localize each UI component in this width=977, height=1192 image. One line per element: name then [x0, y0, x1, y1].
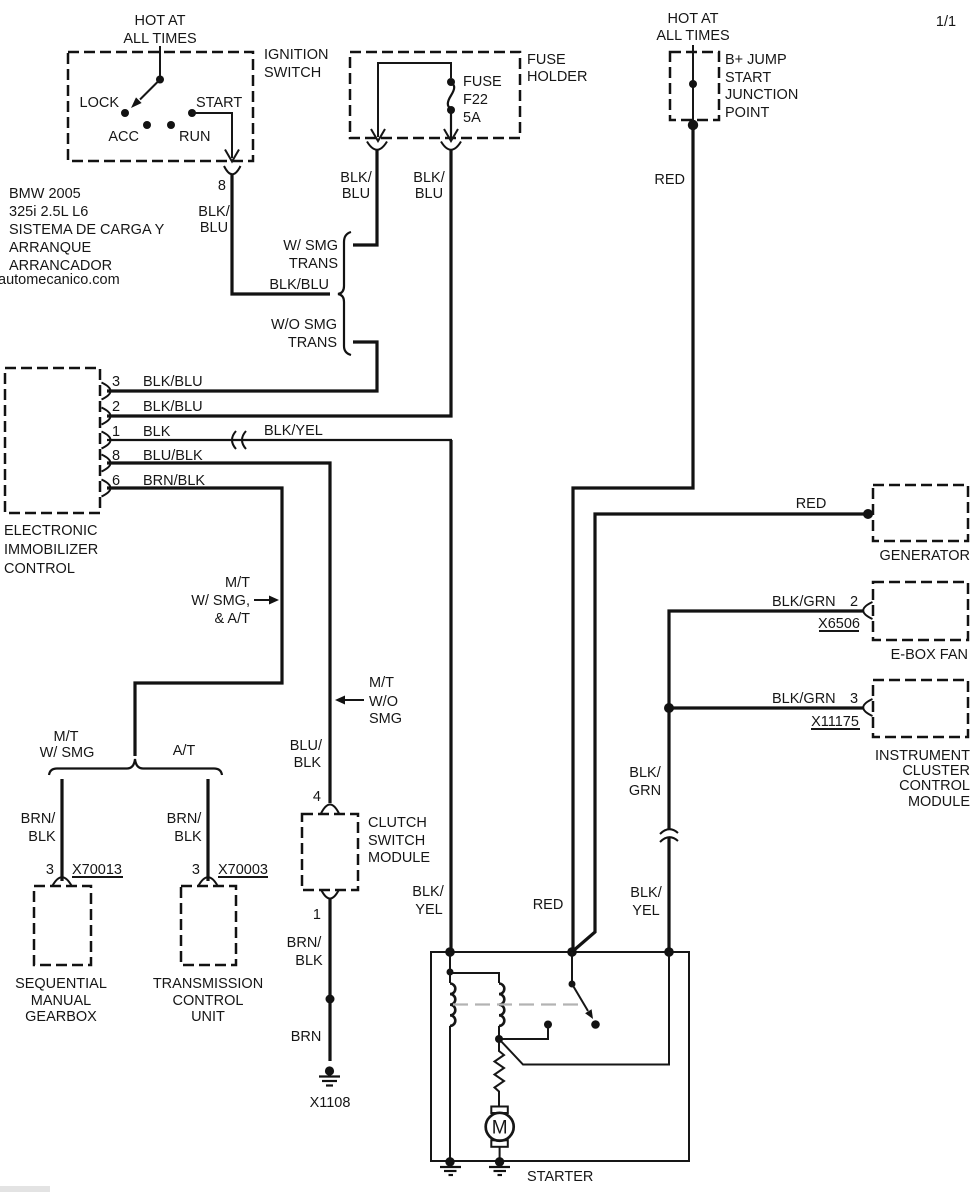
svg-text:3: 3 [112, 374, 120, 390]
svg-text:W/O: W/O [369, 694, 398, 710]
svg-text:IGNITION: IGNITION [264, 47, 328, 63]
splice dot [326, 995, 335, 1004]
svg-text:BLK: BLK [294, 755, 322, 771]
svg-text:W/ SMG,: W/ SMG, [191, 593, 250, 609]
svg-text:BRN/: BRN/ [21, 811, 57, 827]
wire feed into ignition switch [159, 46, 161, 79]
svg-text:& A/T: & A/T [215, 611, 251, 627]
wire BRN/BLK from clutch to ground [328, 899, 331, 1061]
svg-text:TRANS: TRANS [289, 256, 338, 272]
wire RED generator branch [573, 514, 868, 951]
wire START to ignition output with arrow [192, 113, 232, 158]
svg-text:BLU: BLU [415, 186, 443, 202]
connector arc pin 8 under ignition switch [224, 166, 241, 174]
svg-text:SISTEMA DE CARGA Y: SISTEMA DE CARGA Y [9, 222, 165, 238]
svg-text:BLK/BLU: BLK/BLU [269, 277, 329, 293]
interrupt symbol on BLK/GRN wire [660, 829, 678, 834]
svg-text:X6506: X6506 [818, 616, 860, 632]
ground node motor [495, 1157, 504, 1166]
pin 6 connector arc [102, 480, 111, 497]
svg-text:BLK: BLK [143, 424, 171, 440]
svg-text:E-BOX FAN: E-BOX FAN [891, 647, 968, 663]
generator box [873, 485, 968, 541]
svg-text:ACC: ACC [108, 129, 139, 145]
svg-text:MODULE: MODULE [908, 794, 970, 810]
connector arc under fuse (left) [367, 142, 387, 150]
svg-text:BLK: BLK [295, 953, 323, 969]
ground node left in starter [445, 1157, 454, 1166]
node dot at generator [863, 509, 873, 519]
ignition rotor arm with arrowhead [156, 76, 164, 84]
wire inside junction box [692, 45, 694, 120]
wire junction to motor circuit [499, 952, 669, 1065]
svg-text:A/T: A/T [173, 743, 196, 759]
svg-text:LOCK: LOCK [80, 95, 120, 111]
pin 2 connector arc [102, 408, 111, 425]
wire pin 8 BLU/BLK to clutch switch module [107, 463, 330, 803]
svg-text:YEL: YEL [632, 903, 659, 919]
node BLK/YEL at starter [445, 947, 455, 957]
sequential manual gearbox box [34, 886, 91, 965]
svg-text:UNIT: UNIT [191, 1009, 225, 1025]
svg-text:RED: RED [796, 496, 827, 512]
node dot inside box [689, 80, 697, 88]
svg-text:X1108: X1108 [310, 1095, 351, 1111]
transmission control unit box [181, 886, 236, 965]
svg-text:1/1: 1/1 [936, 14, 956, 30]
svg-text:SWITCH: SWITCH [264, 65, 321, 81]
instrument cluster control module box [873, 680, 968, 737]
junction dot BLK/GRN [664, 703, 674, 713]
svg-text:3: 3 [46, 862, 54, 878]
wire BLK/BLU from ignition pin 8 down and right to brace [232, 174, 330, 294]
starter switch pivot [571, 952, 573, 984]
starter switch arm with arrowhead [572, 984, 588, 1011]
svg-text:BLK/: BLK/ [198, 204, 230, 220]
arrow to BRN/BLK wire [254, 599, 271, 601]
solenoid contact stub [544, 1021, 552, 1029]
svg-text:BLK: BLK [174, 829, 202, 845]
svg-text:HOT AT: HOT AT [667, 11, 718, 27]
svg-text:8: 8 [218, 178, 226, 194]
svg-text:STARTER: STARTER [527, 1169, 593, 1185]
solenoid feed node [447, 969, 454, 976]
svg-text:INSTRUMENT: INSTRUMENT [875, 748, 970, 764]
svg-text:B+ JUMP: B+ JUMP [725, 52, 787, 68]
svg-text:X11175: X11175 [811, 714, 859, 730]
svg-text:IMMOBILIZER: IMMOBILIZER [4, 542, 98, 558]
svg-text:POINT: POINT [725, 105, 769, 121]
svg-text:BLK/GRN: BLK/GRN [772, 594, 836, 610]
node LOCK [121, 109, 129, 117]
node b+ output [688, 120, 698, 130]
connector arc clutch pin 4 [321, 805, 339, 814]
node RUN [167, 121, 175, 129]
svg-text:F22: F22 [463, 92, 488, 108]
node ACC [143, 121, 151, 129]
svg-text:RUN: RUN [179, 129, 210, 145]
svg-text:BLU/: BLU/ [290, 738, 323, 754]
svg-text:FUSE: FUSE [463, 74, 502, 90]
pin 8 connector arc [102, 455, 111, 472]
fuse output arrow (left) [371, 129, 385, 141]
bottom-left smudge [0, 1186, 50, 1192]
solenoid coil 1 [450, 984, 455, 1026]
svg-text:BRN/: BRN/ [167, 811, 203, 827]
connector arc X70013 [52, 877, 72, 886]
svg-text:HOT AT: HOT AT [134, 13, 185, 29]
svg-text:ELECTRONIC: ELECTRONIC [4, 523, 97, 539]
wire BRN/BLK to X70003 [206, 779, 209, 881]
svg-text:BLK: BLK [28, 829, 56, 845]
svg-text:X70013: X70013 [72, 862, 122, 878]
svg-text:MODULE: MODULE [368, 850, 430, 866]
svg-text:2: 2 [112, 399, 120, 415]
svg-text:CLUTCH: CLUTCH [368, 815, 427, 831]
wire right fuse output down to immobilizer pin 2 row [107, 150, 451, 416]
connector arc X70003 [198, 877, 218, 886]
wire coil 1 to ground [449, 1026, 451, 1160]
svg-text:BMW 2005: BMW 2005 [9, 186, 81, 202]
svg-text:M/T: M/T [225, 575, 250, 591]
node RED at starter [567, 947, 577, 957]
svg-text:BLK/GRN: BLK/GRN [772, 691, 836, 707]
svg-text:HOLDER: HOLDER [527, 69, 587, 85]
fuse holder internal bus wire [378, 63, 451, 137]
svg-text:BLK/: BLK/ [412, 884, 444, 900]
svg-text:M/T: M/T [54, 729, 79, 745]
svg-text:W/ SMG: W/ SMG [40, 745, 95, 761]
ground symbol motor [489, 1166, 510, 1168]
svg-text:325i 2.5L L6: 325i 2.5L L6 [9, 204, 88, 220]
wire BRN/BLK to X70013 [60, 779, 63, 881]
wire left fuse output to W/SMG brace [353, 150, 377, 245]
svg-text:GEARBOX: GEARBOX [25, 1009, 97, 1025]
svg-text:MANUAL: MANUAL [31, 993, 91, 1009]
svg-text:BLU: BLU [342, 186, 370, 202]
fuse holder box [350, 52, 520, 138]
svg-text:BRN/: BRN/ [287, 935, 323, 951]
mechanical linkage (dashed) [453, 1003, 581, 1005]
svg-text:RED: RED [533, 897, 564, 913]
resistor [495, 1039, 505, 1107]
ground X1108 [325, 1066, 334, 1075]
svg-text:BLK/: BLK/ [413, 170, 445, 186]
brace transmission options [338, 232, 351, 355]
fuse output arrow (right) [444, 129, 458, 141]
svg-text:GENERATOR: GENERATOR [879, 548, 970, 564]
node START [188, 109, 196, 117]
svg-text:FUSE: FUSE [527, 52, 566, 68]
svg-text:BRN: BRN [291, 1029, 322, 1045]
svg-text:2: 2 [850, 594, 858, 610]
ground symbol left [440, 1166, 461, 1168]
svg-text:BLK/: BLK/ [340, 170, 372, 186]
svg-text:CONTROL: CONTROL [899, 778, 970, 794]
starter switch contact [591, 1020, 600, 1029]
connector arc e-box fan [863, 602, 872, 619]
starter box [431, 952, 689, 1161]
clutch switch module box [302, 814, 358, 890]
e-box fan box [873, 582, 968, 640]
wire solenoid bus [449, 952, 451, 983]
svg-text:5A: 5A [463, 110, 481, 126]
svg-text:JUNCTION: JUNCTION [725, 87, 798, 103]
electronic immobilizer control box [5, 368, 100, 513]
wire BLK/GRN to e-box fan and instrument cluster [669, 611, 864, 829]
svg-text:automecanico.com: automecanico.com [0, 272, 120, 288]
pin 1 connector arc [102, 432, 111, 449]
svg-text:1: 1 [112, 424, 120, 440]
solenoid coil 2 [499, 984, 504, 1026]
svg-text:ALL TIMES: ALL TIMES [656, 28, 729, 44]
connector arc under fuse (right) [441, 142, 461, 150]
svg-text:BLK/BLU: BLK/BLU [143, 374, 203, 390]
svg-text:RED: RED [654, 172, 685, 188]
svg-text:ALL TIMES: ALL TIMES [123, 31, 196, 47]
svg-text:TRANSMISSION: TRANSMISSION [153, 976, 263, 992]
ignition switch box [68, 52, 253, 161]
svg-text:4: 4 [313, 789, 321, 805]
svg-text:SWITCH: SWITCH [368, 833, 425, 849]
svg-text:CLUSTER: CLUSTER [902, 763, 970, 779]
wire W/O SMG branch to immobilizer pin 3 [107, 342, 377, 391]
svg-text:BLU: BLU [200, 220, 228, 236]
svg-text:BLK/: BLK/ [630, 885, 662, 901]
svg-text:3: 3 [850, 691, 858, 707]
svg-text:3: 3 [192, 862, 200, 878]
svg-text:M/T: M/T [369, 675, 394, 691]
wire RED b+ to starter [573, 125, 693, 952]
svg-text:W/O SMG: W/O SMG [271, 317, 337, 333]
svg-text:CONTROL: CONTROL [4, 561, 75, 577]
svg-text:W/ SMG: W/ SMG [283, 238, 338, 254]
svg-text:ARRANQUE: ARRANQUE [9, 240, 92, 256]
svg-text:START: START [196, 95, 242, 111]
svg-text:BLK/YEL: BLK/YEL [264, 423, 323, 439]
motor M [491, 1107, 508, 1114]
b+ jump start junction point box [670, 52, 719, 120]
brace gearbox options [49, 759, 222, 775]
wire pin 1 BLK/BLK-YEL to starter [107, 439, 452, 441]
node BLK/YEL right at starter [664, 947, 674, 957]
svg-text:SEQUENTIAL: SEQUENTIAL [15, 976, 107, 992]
fuse F22 5A [447, 78, 455, 86]
svg-text:START: START [725, 70, 771, 86]
wire coil 2 to junction [498, 1026, 500, 1039]
svg-text:M: M [492, 1118, 508, 1139]
connector arc instrument cluster [863, 699, 872, 716]
svg-text:X70003: X70003 [218, 862, 268, 878]
pin 3 connector arc [102, 383, 111, 400]
svg-text:SMG: SMG [369, 711, 402, 727]
svg-text:GRN: GRN [629, 783, 661, 799]
connector arc clutch pin 1 [321, 890, 339, 899]
arrow to BLU/BLK wire [342, 699, 364, 701]
interrupt symbol on pin 1 wire [232, 431, 236, 449]
junction node coil/resistor [495, 1035, 503, 1043]
svg-text:BLK/BLU: BLK/BLU [143, 399, 203, 415]
svg-text:TRANS: TRANS [288, 335, 337, 351]
svg-text:BLK/: BLK/ [629, 765, 661, 781]
svg-text:1: 1 [313, 907, 321, 923]
svg-text:CONTROL: CONTROL [173, 993, 244, 1009]
svg-text:YEL: YEL [415, 902, 442, 918]
wire pin 6 BRN/BLK down to gearbox brace [107, 488, 282, 756]
